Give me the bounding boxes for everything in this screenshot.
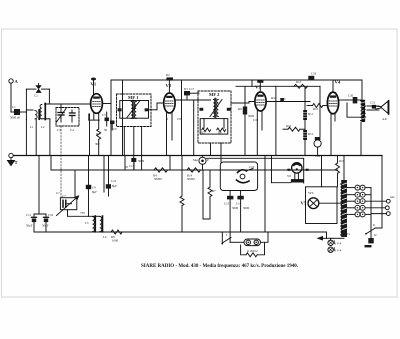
svg-text:V2: V2 — [166, 83, 172, 88]
svg-text:R1: R1 — [96, 132, 100, 136]
svg-text:25: 25 — [125, 165, 129, 169]
svg-text:V4: V4 — [335, 80, 341, 85]
svg-text:T1: T1 — [347, 232, 351, 236]
svg-text:C4: C4 — [70, 128, 74, 132]
svg-text:5Y3: 5Y3 — [308, 191, 314, 195]
svg-text:C20: C20 — [348, 94, 354, 98]
svg-text:L4: L4 — [103, 235, 107, 239]
svg-text:C1: C1 — [12, 105, 16, 109]
svg-text:R6: R6 — [218, 131, 222, 135]
svg-text:R11: R11 — [308, 112, 313, 116]
svg-text:C16: C16 — [249, 165, 255, 169]
svg-text:R 200 Ω: R 200 Ω — [247, 249, 258, 253]
svg-text:50000: 50000 — [154, 177, 162, 181]
svg-text:R13: R13 — [296, 80, 302, 84]
svg-text:rete: rete — [390, 195, 395, 199]
svg-text:C17: C17 — [189, 87, 195, 91]
svg-text:C12: C12 — [111, 179, 117, 183]
svg-text:C: C — [284, 97, 286, 101]
svg-text:C7: C7 — [56, 191, 60, 195]
svg-text:5000 pF: 5000 pF — [10, 116, 21, 120]
svg-text:V1: V1 — [91, 82, 97, 87]
svg-text:C21: C21 — [370, 101, 376, 105]
svg-text:50μF: 50μF — [42, 224, 49, 228]
svg-text:50000: 50000 — [187, 177, 195, 181]
svg-text:I: I — [226, 233, 227, 237]
svg-text:C5: C5 — [102, 113, 106, 117]
svg-text:50: 50 — [104, 128, 108, 132]
svg-text:V6: V6 — [287, 174, 291, 178]
svg-text:6 V 4: 6 V 4 — [335, 242, 342, 246]
svg-text:A.P.: A.P. — [382, 117, 387, 121]
svg-text:R10: R10 — [286, 124, 292, 128]
svg-text:8μF: 8μF — [92, 190, 97, 194]
svg-text:5000: 5000 — [243, 206, 250, 210]
svg-text:I2: I2 — [374, 233, 377, 237]
svg-text:P: P — [207, 158, 209, 162]
svg-text:6 V 4: 6 V 4 — [335, 249, 342, 253]
svg-text:C10: C10 — [48, 213, 54, 217]
svg-text:1000: 1000 — [112, 239, 119, 243]
svg-text:C11: C11 — [26, 213, 31, 217]
svg-text:C9: C9 — [92, 186, 96, 190]
svg-text:R9: R9 — [238, 107, 242, 111]
svg-text:C8: C8 — [177, 117, 181, 121]
svg-text:R10: R10 — [271, 96, 277, 100]
svg-text:R12: R12 — [308, 132, 314, 136]
svg-text:R15: R15 — [313, 107, 319, 111]
svg-text:V3: V3 — [255, 85, 261, 90]
svg-text:C3: C3 — [57, 128, 61, 132]
svg-text:50μF: 50μF — [26, 224, 33, 228]
svg-text:C14: C14 — [236, 202, 242, 206]
svg-text:Mω: Mω — [193, 158, 198, 162]
svg-text:R7: R7 — [212, 189, 216, 193]
svg-text:T: T — [15, 160, 18, 165]
svg-text:V5: V5 — [301, 201, 307, 206]
svg-text:R3: R3 — [184, 87, 188, 91]
svg-text:C7: C7 — [62, 194, 66, 198]
svg-text:5000: 5000 — [232, 206, 239, 210]
svg-text:R2: R2 — [166, 73, 170, 77]
svg-text:5000: 5000 — [138, 159, 145, 163]
svg-text:R16: R16 — [339, 159, 345, 163]
svg-text:730: 730 — [80, 211, 85, 215]
svg-text:MF 2: MF 2 — [209, 92, 220, 97]
svg-text:C15: C15 — [224, 202, 230, 206]
svg-text:MF 1: MF 1 — [128, 95, 139, 100]
svg-text:C13: C13 — [129, 164, 135, 168]
svg-text:L1: L1 — [30, 125, 34, 129]
svg-text:C19: C19 — [253, 118, 259, 122]
svg-text:SIARE RADIO - Mod. 438 - Media: SIARE RADIO - Mod. 438 - Media frequenza… — [141, 264, 298, 269]
svg-text:8μF: 8μF — [112, 184, 117, 188]
svg-text:300: 300 — [95, 142, 100, 146]
svg-text:L3: L3 — [85, 221, 89, 225]
svg-text:C22: C22 — [315, 154, 321, 158]
svg-text:C2: C2 — [34, 94, 38, 98]
svg-text:C6: C6 — [113, 127, 117, 131]
svg-text:R5: R5 — [201, 131, 205, 135]
svg-text:L2: L2 — [41, 125, 45, 129]
svg-text:I1: I1 — [373, 223, 376, 227]
svg-text:C18: C18 — [311, 72, 317, 76]
